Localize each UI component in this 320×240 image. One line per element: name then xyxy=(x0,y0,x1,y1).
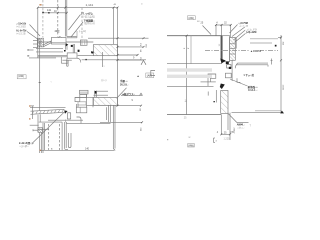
svg-text:t=2.3 BD: t=2.3 BD xyxy=(17,25,27,28)
svg-text:(8): (8) xyxy=(184,100,186,103)
svg-text:1,815: 1,815 xyxy=(282,85,284,91)
svg-text:140: 140 xyxy=(85,147,90,150)
svg-text:(AW): (AW) xyxy=(188,144,194,147)
svg-text:(※低污染型): (※低污染型) xyxy=(82,14,96,18)
svg-text:(役物のみ): (役物のみ) xyxy=(84,21,95,25)
svg-text:(小□): (小□) xyxy=(101,78,107,82)
svg-text:(35): (35) xyxy=(231,131,235,134)
svg-text:30.2.8□: 30.2.8□ xyxy=(120,83,129,86)
svg-text:m: m xyxy=(141,3,143,5)
svg-text:8 12.4 □: 8 12.4 □ xyxy=(248,89,257,92)
svg-text:(□+12): (□+12) xyxy=(79,30,86,33)
svg-text:t=1.5 2B: t=1.5 2B xyxy=(17,32,26,35)
svg-text:(+8)+12M: (+8)+12M xyxy=(246,31,256,34)
svg-text:(AW): (AW) xyxy=(147,75,153,78)
svg-text:■板がラス□: ■板がラス□ xyxy=(123,92,136,96)
svg-text:40殺: 40殺 xyxy=(55,29,61,33)
svg-text:□せ□□: □せ□□ xyxy=(237,126,244,130)
svg-text:コ□ト□■: コ□ト□■ xyxy=(239,25,249,28)
svg-text:▲: ▲ xyxy=(137,74,140,78)
svg-text:▲СОРd: ▲СОРd xyxy=(250,49,261,53)
svg-text:▼サッ□芯: ▼サッ□芯 xyxy=(243,73,255,77)
svg-text:1,141: 1,141 xyxy=(86,3,94,7)
svg-text:w: w xyxy=(189,136,191,139)
svg-text:1,225: 1,225 xyxy=(224,137,231,140)
svg-text:(AW): (AW) xyxy=(18,75,24,78)
svg-text:141: 141 xyxy=(47,9,52,12)
svg-text:□ジ□ボ□: □ジ□ボ□ xyxy=(20,144,30,148)
svg-text:(AW): (AW) xyxy=(189,17,194,20)
